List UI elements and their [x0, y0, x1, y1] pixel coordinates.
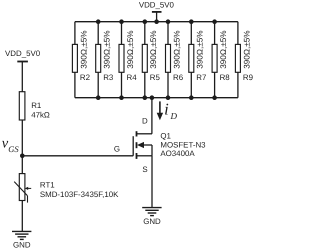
- wire: vGS node to RT1: [21, 156, 23, 174]
- svg-text:RT1: RT1: [40, 180, 55, 189]
- wire: R1 to node vGS: [21, 120, 23, 156]
- ground symbol (left): [12, 231, 31, 239]
- svg-text:390Ω,±5%: 390Ω,±5%: [149, 30, 158, 68]
- current arrow iD: [157, 101, 163, 120]
- svg-text:GND: GND: [13, 240, 31, 249]
- junction dot: R4 on bottom bus: [119, 95, 124, 100]
- wire: top bus of resistor bank: [75, 21, 238, 23]
- wire: R6 top lead: [167, 22, 169, 45]
- resistor R4: [119, 44, 124, 72]
- svg-text:S: S: [142, 165, 147, 174]
- transistor Q1 (N-MOSFET): [133, 131, 152, 159]
- svg-text:AO3400A: AO3400A: [160, 149, 195, 158]
- svg-text:R5: R5: [150, 73, 161, 82]
- resistor R8: [212, 44, 217, 72]
- svg-text:390Ω,±5%: 390Ω,±5%: [172, 30, 181, 68]
- power flag VDD_5V0 (left): [5, 49, 41, 92]
- svg-text:390Ω,±5%: 390Ω,±5%: [79, 30, 88, 68]
- resistor R9: [235, 44, 240, 72]
- svg-text:390Ω,±5%: 390Ω,±5%: [126, 30, 135, 68]
- svg-text:R2: R2: [80, 73, 90, 82]
- wire: R3 bottom lead: [97, 72, 99, 97]
- svg-text:R1: R1: [31, 101, 41, 110]
- svg-text:R7: R7: [196, 73, 206, 82]
- svg-text:R9: R9: [243, 73, 254, 82]
- wire: Q1 source to right GND: [151, 156, 153, 208]
- resistor R6: [166, 44, 171, 72]
- svg-text:R8: R8: [220, 73, 231, 82]
- svg-text:SMD-103F-3435F,10K: SMD-103F-3435F,10K: [40, 190, 119, 199]
- wire: R4 bottom lead: [121, 72, 123, 97]
- svg-text:GS: GS: [8, 144, 19, 154]
- junction dot: VDD stem on top bus: [154, 19, 159, 24]
- resistor R5: [142, 44, 147, 72]
- junction dot: R4 on top bus: [119, 19, 124, 24]
- svg-text:i: i: [164, 99, 169, 118]
- svg-text:GND: GND: [143, 217, 161, 226]
- junction dot: R6 on top bus: [166, 19, 171, 24]
- power flag VDD_5V0 (top): [139, 0, 175, 21]
- junction dot: R6 on bottom bus: [166, 95, 171, 100]
- svg-text:G: G: [114, 145, 120, 154]
- svg-text:VDD_5V0: VDD_5V0: [139, 0, 175, 9]
- svg-text:R4: R4: [127, 73, 138, 82]
- svg-text:390Ω,±5%: 390Ω,±5%: [103, 30, 112, 68]
- wire: bottom bus to Q1 drain: [151, 98, 153, 134]
- svg-text:D: D: [142, 116, 148, 125]
- wire: R7 top lead: [190, 22, 192, 45]
- current label iD: [164, 99, 177, 121]
- thermistor RT1: [14, 174, 31, 203]
- resistor R3: [96, 44, 101, 72]
- wire: R9 bottom lead: [237, 72, 239, 97]
- svg-text:D: D: [170, 111, 178, 121]
- junction dot: R7 on top bus: [189, 19, 194, 24]
- wire: R6 bottom lead: [167, 72, 169, 97]
- svg-text:47kΩ: 47kΩ: [31, 111, 50, 120]
- wire: R5 bottom lead: [144, 72, 146, 97]
- wire: R8 bottom lead: [214, 72, 216, 97]
- junction dot: R5 on top bus: [143, 19, 148, 24]
- wire: R3 top lead: [97, 22, 99, 45]
- resistor R2: [72, 44, 77, 72]
- wire: R5 top lead: [144, 22, 146, 45]
- svg-text:MOSFET-N3: MOSFET-N3: [160, 140, 206, 149]
- junction dot: node vGS: [20, 154, 25, 159]
- wire: gate wire from vGS to Q1 gate: [22, 155, 133, 157]
- resistor R1: [19, 92, 25, 120]
- svg-text:Q1: Q1: [160, 131, 171, 140]
- wire: R7 bottom lead: [190, 72, 192, 97]
- junction dot: R7 on bottom bus: [189, 95, 194, 100]
- node vGS label: [2, 135, 20, 153]
- wire: R2 top lead: [74, 22, 76, 45]
- wire: RT1 to left GND: [21, 201, 23, 232]
- svg-text:390Ω,±5%: 390Ω,±5%: [196, 30, 205, 68]
- svg-text:R6: R6: [173, 73, 184, 82]
- junction dot: drain stem on bottom bus: [150, 95, 155, 100]
- wire: R8 top lead: [214, 22, 216, 45]
- junction dot: R8 on top bus: [212, 19, 217, 24]
- wire: bottom bus of resistor bank: [75, 97, 238, 99]
- resistor R7: [189, 44, 194, 72]
- wire: R4 top lead: [121, 22, 123, 45]
- junction dot: R5 on bottom bus: [143, 95, 148, 100]
- wire: R2 bottom lead: [74, 72, 76, 97]
- svg-text:R3: R3: [103, 73, 114, 82]
- svg-text:390Ω,±5%: 390Ω,±5%: [219, 30, 228, 68]
- ground symbol (right): [142, 208, 161, 216]
- svg-text:VDD_5V0: VDD_5V0: [5, 49, 41, 58]
- junction dot: R8 on bottom bus: [212, 95, 217, 100]
- wire: R9 top lead: [237, 22, 239, 45]
- junction dot: R3 on bottom bus: [96, 95, 101, 100]
- junction dot: R3 on top bus: [96, 19, 101, 24]
- svg-text:390Ω,±5%: 390Ω,±5%: [242, 30, 251, 68]
